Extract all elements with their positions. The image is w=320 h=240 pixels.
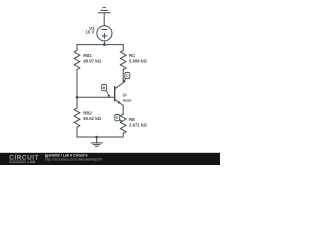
junction node at V1 / top bus: [103, 43, 106, 46]
resistor RB1: [74, 50, 80, 69]
svg-text:LAB: LAB: [28, 159, 36, 164]
svg-text:RC: RC: [129, 53, 135, 58]
wire RB2 to bottom bus: [76, 127, 78, 137]
svg-text:2N2222: 2N2222: [123, 98, 132, 102]
junction node at base: [76, 96, 79, 99]
svg-text:RB1: RB1: [83, 53, 92, 58]
ground (bottom): [91, 137, 102, 146]
transistor Q1: [115, 83, 124, 105]
resistor RB2: [74, 108, 80, 127]
svg-text:15 V: 15 V: [86, 30, 95, 35]
wire RE to bottom bus: [122, 133, 124, 137]
svg-text:RB2: RB2: [83, 111, 92, 116]
wire RB1 to base node: [76, 70, 78, 108]
wire V1 to top bus: [103, 41, 105, 45]
wire RC to collector: [122, 70, 124, 83]
wire emitter to RE: [122, 105, 124, 114]
node flag B: [102, 84, 110, 97]
svg-text:5.096 kΩ: 5.096 kΩ: [129, 59, 147, 64]
voltage source V1: [97, 26, 112, 41]
svg-text:http://circuitlab.com/c/8xma6b: http://circuitlab.com/c/8xma6bkdp5/9: [45, 158, 102, 162]
watermark footer bar: [0, 153, 220, 165]
wire top bus to RB1: [76, 45, 78, 51]
ground (top): [98, 8, 110, 26]
svg-text:2.971 kΩ: 2.971 kΩ: [129, 123, 147, 128]
junction node at bottom ground: [95, 136, 98, 139]
wire top bus: [77, 44, 123, 46]
svg-text:50.52 kΩ: 50.52 kΩ: [83, 116, 101, 121]
wire top bus to RC: [122, 45, 124, 51]
svg-text:Q1: Q1: [123, 93, 127, 97]
svg-text:RE: RE: [129, 117, 135, 122]
resistor RE: [120, 114, 126, 133]
svg-text:98.97 kΩ: 98.97 kΩ: [83, 59, 101, 64]
wire base: [77, 96, 115, 98]
resistor RC: [120, 50, 126, 69]
node flag C: [123, 72, 129, 83]
node flag E: [115, 115, 123, 122]
CircuitLab logo: [9, 154, 39, 164]
wire bottom bus: [77, 136, 123, 138]
